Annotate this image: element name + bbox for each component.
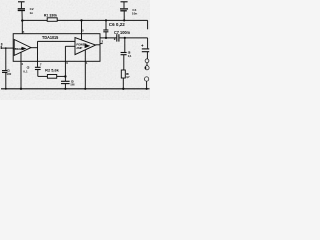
- svg-text:R1 330k: R1 330k: [44, 13, 58, 17]
- svg-text:PREAMP: PREAMP: [14, 47, 25, 51]
- svg-text:8: 8: [1, 42, 3, 46]
- svg-text:100: 100: [6, 72, 11, 76]
- svg-text:C7 100m: C7 100m: [114, 30, 130, 35]
- svg-text:C6 0,22: C6 0,22: [109, 22, 126, 27]
- svg-text:AMP: AMP: [76, 46, 82, 50]
- svg-text:0,1: 0,1: [128, 54, 132, 58]
- svg-text:10n: 10n: [132, 12, 137, 16]
- svg-text:4,7: 4,7: [126, 75, 130, 79]
- svg-text:R2 5,6k: R2 5,6k: [45, 69, 60, 73]
- svg-text:0,1: 0,1: [23, 69, 28, 73]
- svg-text:TDA1015: TDA1015: [42, 35, 59, 41]
- svg-text:1800: 1800: [70, 82, 74, 86]
- svg-text:1n: 1n: [30, 11, 34, 15]
